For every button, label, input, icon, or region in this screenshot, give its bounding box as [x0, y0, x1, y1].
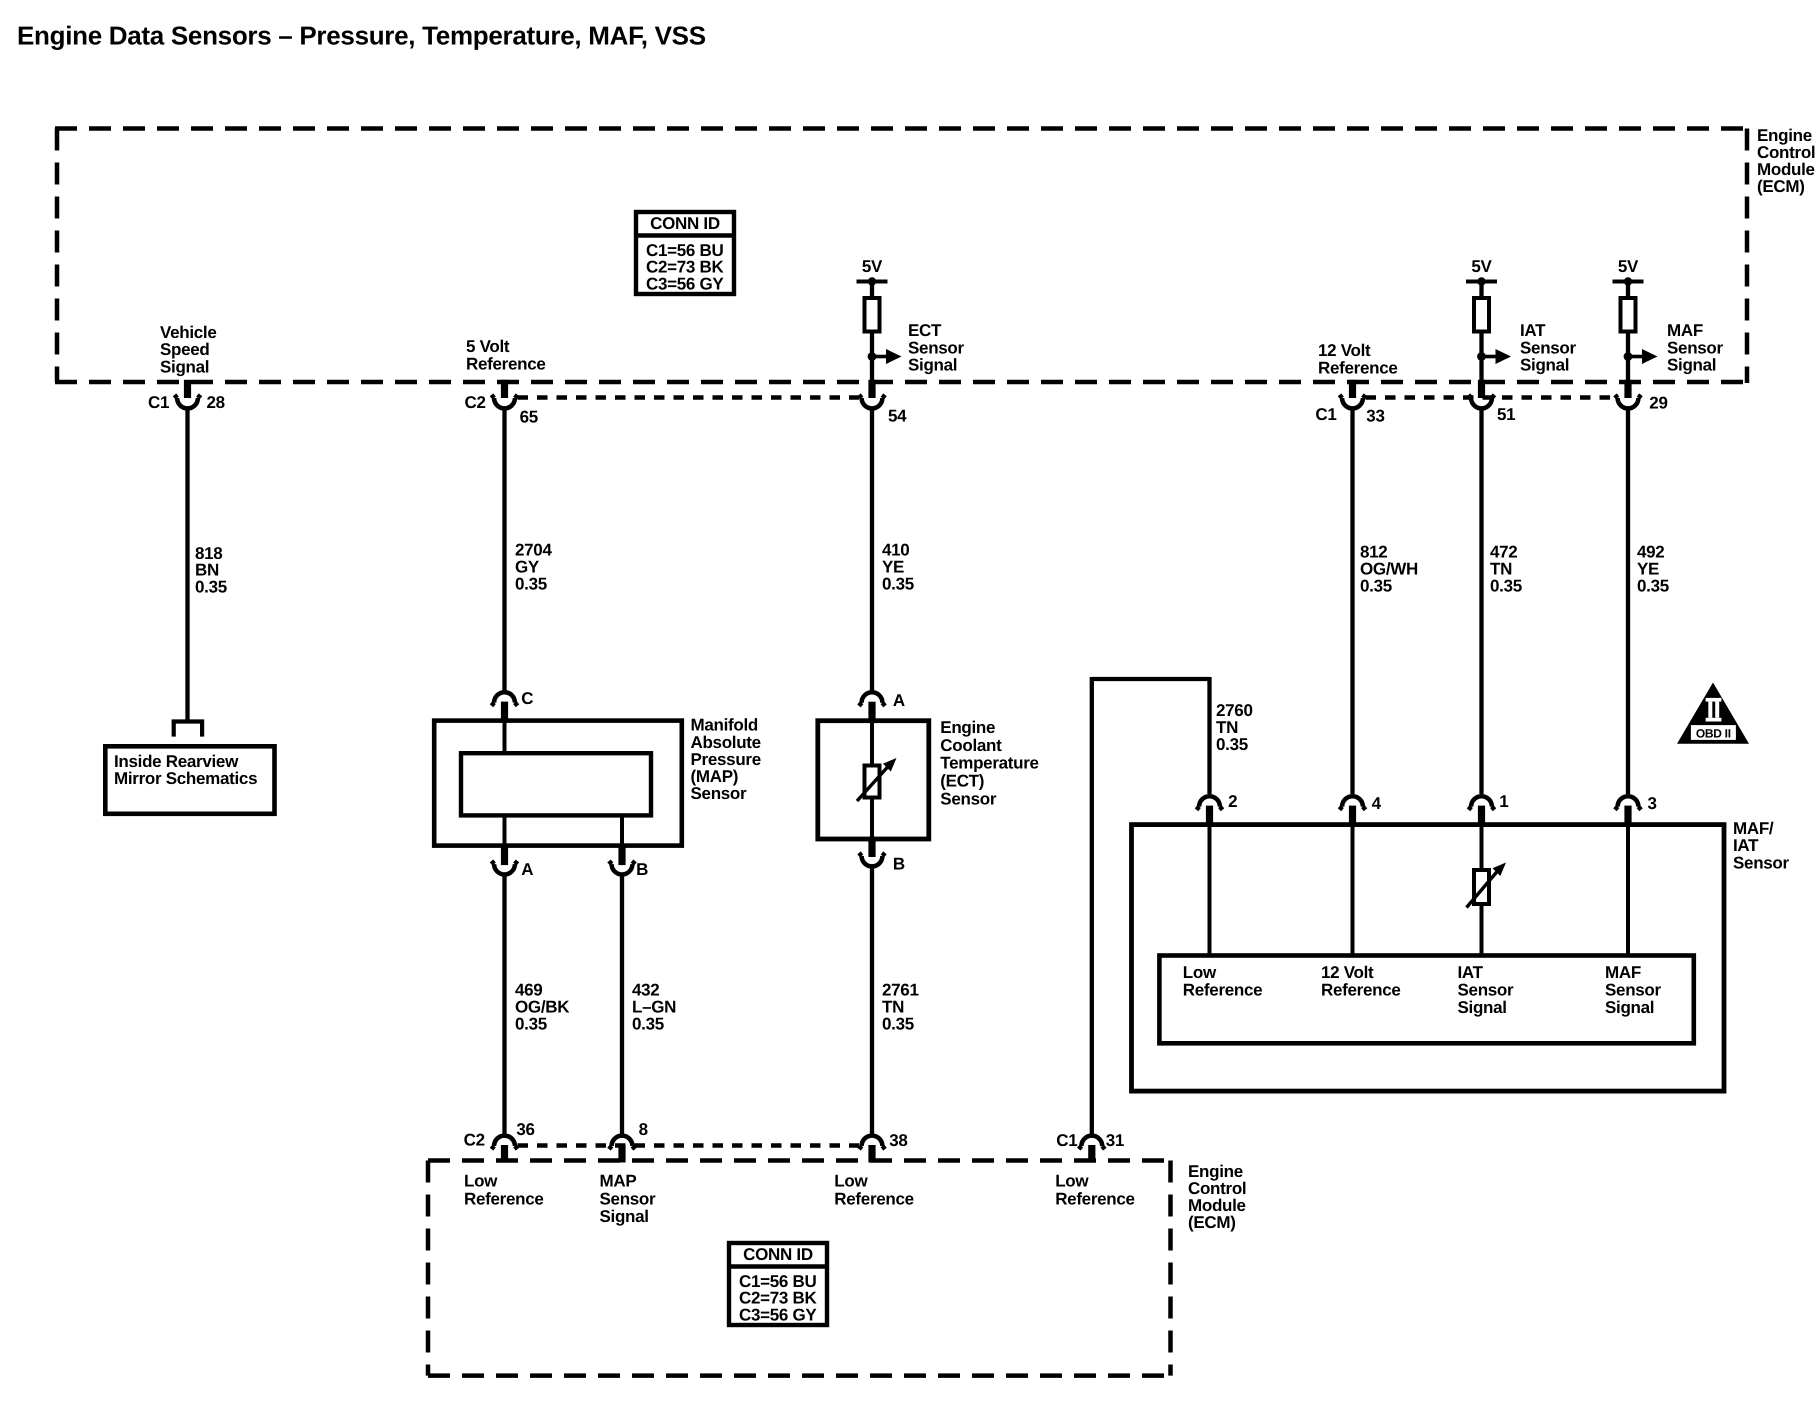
wire MAP internal B	[620, 815, 624, 845]
svg-text:36: 36	[516, 1120, 534, 1139]
MAP sensor connector pin A	[501, 844, 508, 866]
wire 410 ECT signal	[870, 410, 874, 691]
ECT sensor connector pin A	[868, 702, 875, 723]
svg-text:CONN ID: CONN ID	[650, 214, 720, 233]
svg-text:Reference: Reference	[1321, 980, 1401, 999]
svg-text:0.35: 0.35	[882, 574, 914, 593]
svg-text:33: 33	[1366, 407, 1384, 426]
svg-text:MAF: MAF	[1667, 321, 1703, 340]
MAF/IAT connector pin 4	[1349, 806, 1356, 827]
svg-text:OBD II: OBD II	[1696, 726, 1731, 740]
wire 2704 5V reference	[502, 410, 506, 691]
wire 2760 low reference route	[1090, 677, 1094, 1134]
wire 469 low reference	[502, 877, 506, 1135]
svg-text:C2: C2	[465, 393, 486, 412]
connector C2 pin 36	[501, 1145, 508, 1163]
svg-text:IAT: IAT	[1520, 321, 1546, 340]
svg-text:12 Volt: 12 Volt	[1321, 963, 1374, 982]
MAF/IAT sensor inner box	[1159, 956, 1693, 1044]
svg-text:(ECT): (ECT)	[940, 772, 984, 791]
wire 812 12V reference	[1350, 410, 1354, 794]
svg-text:12 Volt: 12 Volt	[1318, 341, 1371, 360]
svg-text:ECT: ECT	[908, 321, 942, 340]
svg-text:B: B	[636, 860, 648, 879]
CONN ID table bottom	[729, 1243, 827, 1325]
svg-text:0.35: 0.35	[515, 574, 547, 593]
svg-text:Engine Data Sensors – Pressure: Engine Data Sensors – Pressure, Temperat…	[17, 21, 706, 51]
connector pin 51	[1478, 380, 1485, 398]
wire 472 IAT signal	[1479, 410, 1483, 794]
svg-text:0.35: 0.35	[1216, 735, 1248, 754]
svg-text:5V: 5V	[1618, 257, 1639, 276]
wire 432 MAP signal	[620, 877, 624, 1135]
svg-text:IAT: IAT	[1458, 963, 1484, 982]
ECT sensor box	[818, 721, 929, 839]
svg-text:0.35: 0.35	[1360, 576, 1392, 595]
svg-text:Signal: Signal	[1667, 356, 1716, 375]
svg-text:Engine: Engine	[940, 718, 995, 737]
svg-text:Sensor: Sensor	[1733, 853, 1790, 872]
svg-text:Sensor: Sensor	[1605, 980, 1662, 999]
svg-text:Signal: Signal	[160, 357, 209, 376]
svg-text:Reference: Reference	[834, 1189, 914, 1208]
wire ECT internal	[870, 721, 874, 839]
connector C1 pin 33	[1349, 380, 1356, 398]
box Inside Rearview Mirror Schematics	[105, 746, 274, 814]
svg-text:A: A	[893, 691, 905, 710]
svg-text:4: 4	[1372, 794, 1382, 813]
svg-text:Reference: Reference	[464, 1189, 544, 1208]
svg-text:Sensor: Sensor	[1667, 338, 1724, 357]
svg-text:5V: 5V	[862, 257, 883, 276]
svg-text:C3=56 GY: C3=56 GY	[646, 275, 724, 294]
svg-text:IAT: IAT	[1733, 836, 1759, 855]
MAF/IAT sensor outer box	[1132, 825, 1725, 1092]
IAT thermistor symbol	[1474, 870, 1489, 904]
svg-text:Inside Rearview: Inside Rearview	[114, 752, 239, 771]
svg-text:0.35: 0.35	[195, 577, 227, 596]
svg-text:Sensor: Sensor	[1520, 338, 1577, 357]
svg-text:Sensor: Sensor	[691, 784, 748, 803]
svg-text:5 Volt: 5 Volt	[466, 337, 510, 356]
dotted connector line C1-33 to 29	[1366, 395, 1616, 399]
svg-text:MAF/: MAF/	[1733, 819, 1774, 838]
MAP sensor outer box	[434, 721, 682, 846]
svg-text:0.35: 0.35	[1637, 576, 1669, 595]
wire MAF/IAT internal 3	[1626, 825, 1630, 956]
svg-text:51: 51	[1497, 405, 1515, 424]
MAF/IAT connector pin 2	[1206, 806, 1213, 827]
ECM bottom box dashed border	[428, 1158, 1171, 1163]
svg-text:C: C	[521, 689, 533, 708]
svg-text:0.35: 0.35	[1490, 576, 1522, 595]
svg-text:C1: C1	[1056, 1131, 1077, 1150]
dotted connector line C2-36 to 38	[518, 1143, 860, 1147]
svg-text:Low: Low	[464, 1172, 498, 1191]
svg-text:Reference: Reference	[1318, 358, 1398, 377]
svg-text:Signal: Signal	[1605, 998, 1654, 1017]
svg-text:Low: Low	[1183, 963, 1217, 982]
svg-text:Low: Low	[834, 1172, 868, 1191]
svg-text:5V: 5V	[1471, 257, 1492, 276]
svg-text:B: B	[893, 854, 905, 873]
connector C2 pin 65	[501, 380, 508, 398]
svg-text:Signal: Signal	[1520, 356, 1569, 375]
wire MAF/IAT internal 2	[1208, 825, 1212, 956]
MAP sensor inner box	[461, 753, 651, 815]
ECM top box dashed border	[55, 126, 1747, 131]
svg-text:C2: C2	[464, 1131, 485, 1150]
svg-text:C1: C1	[1315, 405, 1336, 424]
CONN ID table top	[636, 212, 734, 294]
ECT thermistor symbol	[865, 766, 880, 798]
dotted connector line C2-65 to 54	[518, 395, 860, 399]
svg-text:3: 3	[1648, 794, 1657, 813]
svg-text:Reference: Reference	[1183, 980, 1263, 999]
svg-text:CONN ID: CONN ID	[743, 1245, 813, 1264]
svg-text:28: 28	[207, 393, 225, 412]
svg-text:Signal: Signal	[600, 1207, 649, 1226]
OBD II symbol	[1677, 683, 1749, 744]
svg-text:Sensor: Sensor	[1458, 980, 1515, 999]
svg-text:Coolant: Coolant	[940, 736, 1002, 755]
svg-text:Reference: Reference	[1055, 1189, 1135, 1208]
connector pin 29	[1624, 380, 1631, 398]
wire 818 VSS	[185, 410, 189, 720]
connector pin 54	[868, 380, 875, 398]
svg-text:Reference: Reference	[466, 354, 546, 373]
wire MAF/IAT internal 1	[1480, 825, 1484, 956]
wire MAP internal A	[503, 815, 507, 845]
svg-text:Sensor: Sensor	[600, 1189, 657, 1208]
svg-text:A: A	[521, 860, 533, 879]
svg-text:65: 65	[520, 408, 538, 427]
svg-text:Vehicle: Vehicle	[160, 323, 217, 342]
svg-text:29: 29	[1649, 394, 1667, 413]
svg-text:Sensor: Sensor	[940, 790, 997, 809]
connector pin 38	[868, 1145, 875, 1163]
svg-text:38: 38	[889, 1131, 907, 1150]
svg-text:Signal: Signal	[908, 356, 957, 375]
svg-text:0.35: 0.35	[632, 1014, 664, 1033]
svg-text:2: 2	[1228, 792, 1237, 811]
MAF/IAT connector pin 1	[1478, 806, 1485, 827]
svg-text:MAF: MAF	[1605, 963, 1641, 982]
off-page connector bracket VSS	[174, 722, 202, 737]
svg-text:(ECM): (ECM)	[1188, 1213, 1236, 1232]
svg-text:8: 8	[639, 1120, 648, 1139]
ECT sensor connector pin B	[868, 837, 875, 857]
svg-text:Sensor: Sensor	[908, 338, 965, 357]
svg-text:31: 31	[1106, 1131, 1124, 1150]
svg-text:Speed: Speed	[160, 340, 210, 359]
svg-text:Mirror Schematics: Mirror Schematics	[114, 769, 257, 788]
wire MAF/IAT internal 4	[1351, 825, 1355, 956]
svg-text:54: 54	[888, 407, 907, 426]
wire 492 MAF signal	[1626, 410, 1630, 794]
wire 2761 low reference	[870, 868, 874, 1134]
svg-text:Temperature: Temperature	[940, 754, 1038, 773]
svg-text:0.35: 0.35	[882, 1014, 914, 1033]
connector pin 8	[618, 1145, 625, 1163]
wire MAP internal C	[503, 721, 507, 754]
svg-text:C1: C1	[148, 393, 169, 412]
MAF/IAT connector pin 3	[1624, 806, 1631, 827]
MAP sensor connector pin C	[501, 702, 508, 723]
MAP sensor connector pin B	[618, 844, 625, 866]
svg-text:Low: Low	[1055, 1172, 1089, 1191]
svg-text:(ECM): (ECM)	[1757, 177, 1805, 196]
connector C1 pin 28	[184, 380, 191, 398]
svg-text:1: 1	[1499, 792, 1508, 811]
svg-text:C3=56 GY: C3=56 GY	[739, 1306, 817, 1325]
svg-text:0.35: 0.35	[515, 1014, 547, 1033]
svg-text:Signal: Signal	[1458, 998, 1507, 1017]
svg-text:MAP: MAP	[600, 1172, 637, 1191]
connector C1 pin 31	[1088, 1145, 1095, 1163]
